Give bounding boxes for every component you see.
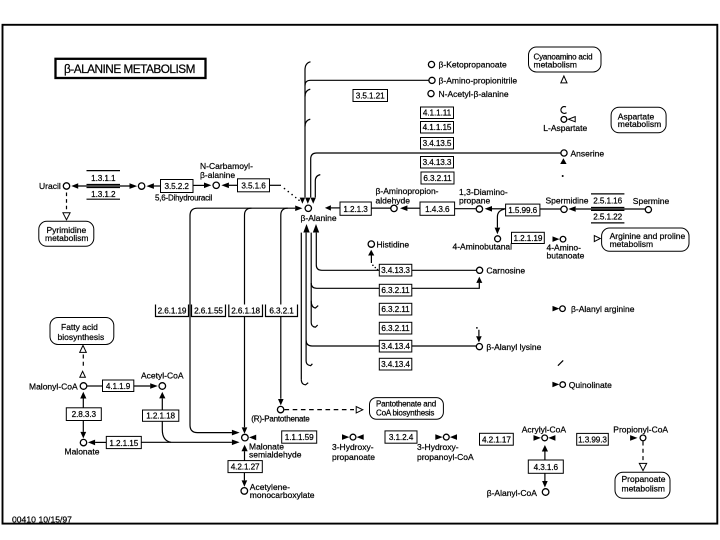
open triangle to arginine box [594, 236, 600, 242]
svg-text:2.5.1.16: 2.5.1.16 [593, 197, 622, 206]
wire to spermidine [540, 208, 561, 210]
svg-text:Anserine: Anserine [571, 149, 605, 159]
svg-text:6.3.2.11: 6.3.2.11 [381, 286, 410, 295]
wire to 3.5.1.6 box [229, 184, 238, 186]
svg-text:3.4.13.3: 3.4.13.3 [423, 158, 452, 167]
open left triangle at L-Aspartate [569, 117, 576, 122]
node N-Acetyl-beta-alanine [428, 91, 434, 97]
svg-text:2.6.1.18: 2.6.1.18 [231, 306, 260, 315]
arrowhead right into 3-hydroxypropanoyl-CoA [435, 434, 442, 440]
wire left line from beta-Alanine bending down to malonate semialdehyde [190, 208, 295, 432]
arrowhead left into 3-hydroxypropanoyl-CoA [450, 434, 457, 440]
svg-text:1.4.3.6: 1.4.3.6 [425, 205, 450, 214]
node 1,3-Diaminopropane [476, 206, 482, 212]
svg-text:metabolism: metabolism [45, 233, 88, 243]
svg-text:4.1.1.9: 4.1.1.9 [106, 382, 131, 391]
pathway box Cyanoamino acid metabolism [529, 47, 602, 72]
arrowhead down into beta-alanyl-lysine [476, 336, 482, 342]
wire to 1.5.99.6 [492, 208, 506, 210]
wire short vertical with curl (to 6.3.2.11) above beta-Alanine [315, 175, 320, 198]
svg-text:CoA biosynthesis: CoA biosynthesis [376, 409, 434, 418]
wire short into beta-alanyl-lysine [478, 330, 480, 336]
dotted diagonal into beta-alanine [284, 188, 286, 190]
open triangle under cyanoamino box [561, 76, 567, 83]
wire right reaction chain from beta-Alanine [331, 207, 340, 209]
arrowhead right into malonate semialdehyde upper [232, 430, 240, 436]
open arrowhead right to pantothenate box [356, 407, 363, 413]
arrowhead right into N-Carbamoyl-beta-alanine [204, 183, 211, 189]
wire malonyl to acetyl line [87, 385, 103, 387]
node Spermine [645, 207, 651, 213]
arrowhead up into carnosine from below [476, 277, 482, 283]
svg-text:3.5.1.21: 3.5.1.21 [356, 91, 385, 100]
arrowhead up into malonyl-CoA from below [80, 392, 86, 399]
node beta-Aminopropion-aldehyde [391, 205, 397, 211]
node Histidine [368, 241, 374, 247]
svg-text:Pantothenate and: Pantothenate and [376, 400, 436, 409]
arrowhead right into propionyl-CoA [630, 435, 637, 441]
node beta-Alanyl-CoA [542, 489, 549, 496]
enzyme box 2.6.1.19 [156, 305, 189, 317]
arrowhead right into malonate semialdehyde lower [232, 440, 240, 446]
node Quinolinate [560, 382, 566, 388]
arrowhead right into acetyl-CoA [150, 383, 158, 389]
svg-text:1.2.1.19: 1.2.1.19 [514, 234, 543, 243]
wire anserine line from vertical down to beta-Alanine [311, 153, 561, 197]
node R-Pantothenate [277, 406, 283, 412]
node beta-Ketopropanoate [428, 61, 434, 67]
node 5,6-Dihydrouracil [138, 183, 144, 189]
svg-text:00410: 00410 [12, 514, 36, 524]
svg-text:metabolism: metabolism [622, 484, 665, 494]
wire to spermine through box pair [576, 208, 646, 210]
small open arrowhead above malonyl-CoA [80, 371, 86, 377]
wire VC end flick [311, 323, 318, 328]
node Spermidine [561, 206, 567, 212]
svg-text:3-Hydroxy-: 3-Hydroxy- [332, 442, 374, 452]
enzyme box pair 2.5.1.16 [591, 193, 624, 195]
svg-text:Spermine: Spermine [633, 196, 670, 206]
arrowhead left into carbamoyl [221, 183, 229, 189]
enzyme box pair 2.5.1.22 [591, 209, 624, 211]
enzyme box 4.1.1.9 [103, 380, 134, 392]
wire from 3.5.1.6 toward beta-alanine [270, 184, 282, 186]
node 3-Hydroxypropanoate [350, 434, 356, 440]
wire branch down through 6.3.2.1 to pantothenate [281, 208, 288, 399]
svg-text:Acrylyl-CoA: Acrylyl-CoA [522, 425, 567, 435]
arrowhead down into acetylene-monocarboxylate [242, 480, 248, 486]
wire curl stub at y121 [305, 119, 310, 126]
open arrowhead up into fatty acid box [80, 345, 87, 352]
wire top curl of vertical [305, 62, 311, 70]
arrowhead right into 5,6-Dihydrouracil [130, 183, 138, 189]
dashed link Uracil down to Pyrimidine metabolism [66, 193, 68, 211]
enzyme box 1.2.1.3 [340, 202, 371, 215]
arrowhead left into Uracil [71, 183, 78, 189]
svg-text:monocarboxylate: monocarboxylate [250, 490, 315, 500]
node beta-Amino-propionitrile [429, 77, 435, 83]
wire branch down through 2.6.1.18 [245, 208, 252, 427]
wire VD vertical below beta-alanine into carnosine hydrolase line [315, 233, 317, 265]
enzyme box 3.1.2.4 [385, 431, 417, 443]
enzyme box 2.8.3.3 [66, 408, 101, 421]
dashed link propionyl-CoA down [642, 442, 644, 462]
enzyme box 3.4.13.3 (carnosine) [379, 264, 412, 276]
enzyme box 1.5.99.6 [506, 204, 540, 216]
svg-text:N-Acetyl-β-alanine: N-Acetyl-β-alanine [439, 89, 509, 99]
enzyme box 3.4.13.3 [421, 157, 454, 169]
node Malonate semialdehyde [242, 434, 249, 441]
svg-text:β-alanine: β-alanine [200, 170, 235, 180]
wire 2.8.3.3 down to malonate [82, 421, 84, 432]
enzyme box pair 1.3.1.1 [87, 170, 121, 172]
wire 4.2.1.27 down [243, 473, 245, 481]
svg-text:4.1.1.15: 4.1.1.15 [423, 123, 452, 132]
wire to 3.5.2.2 box [154, 185, 161, 187]
svg-text:1.2.1.3: 1.2.1.3 [343, 205, 368, 214]
svg-text:semialdehyde: semialdehyde [249, 449, 302, 459]
wire VC curl stub y308 [311, 301, 318, 308]
enzyme box 6.3.2.1 [266, 305, 298, 317]
arrowhead down into malonate [80, 432, 86, 439]
enzyme box 6.3.2.11 (carnosine synthase) [379, 284, 412, 296]
enzyme box 6.3.2.11 [421, 172, 454, 184]
enzyme box 3.5.1.21 [353, 90, 388, 102]
enzyme box 3.5.1.6 [238, 179, 270, 192]
svg-text:5,6-Dihydrouracil: 5,6-Dihydrouracil [155, 194, 212, 203]
svg-text:6.3.2.11: 6.3.2.11 [423, 174, 452, 183]
enzyme box 4.3.1.6 [528, 460, 563, 473]
pathway box Pantothenate and CoA biosynthesis [370, 398, 444, 420]
dot below anserine arrowhead [562, 175, 564, 177]
arrowhead left into acrylyl-CoA [548, 435, 555, 441]
enzyme box 1.2.1.18 [143, 410, 179, 421]
dot above beta-alanyl-lysine [476, 327, 478, 329]
wire branch to beta-Amino-propionitrile [305, 80, 429, 85]
enzyme box 3.4.13.4 (second) [379, 358, 412, 370]
wire to aminopropionaldehyde [371, 207, 390, 209]
arrowhead up into semialdehyde from below [242, 445, 248, 451]
svg-text:6.3.2.11: 6.3.2.11 [381, 305, 410, 314]
svg-text:Propanoate: Propanoate [622, 474, 666, 484]
svg-text:4.2.1.17: 4.2.1.17 [482, 435, 511, 444]
enzyme box 2.6.1.18 [229, 305, 263, 317]
node Acetyl-CoA [159, 383, 166, 390]
svg-text:3.5.2.2: 3.5.2.2 [165, 182, 190, 191]
arrowhead up below Anserine [560, 158, 566, 164]
arrowhead right into 4-aminobutanoate [553, 236, 560, 242]
svg-text:propanoate: propanoate [332, 452, 375, 462]
node Acetylene-monocarboxylate [241, 488, 248, 495]
wire VB vertical below beta-alanine with beta-alanyl-lysine branch [305, 233, 307, 361]
dashed link malonyl-CoA up [82, 355, 84, 369]
svg-text:2.5.1.22: 2.5.1.22 [593, 213, 622, 222]
wire 4.3.1.6 down [544, 473, 546, 481]
svg-text:metabolism: metabolism [610, 239, 653, 249]
wire 1.2.1.18 curl merging to semialdehyde line [162, 421, 171, 442]
arrowheads down into beta-Alanine [300, 198, 305, 204]
enzyme box 6.3.2.11 (third) [379, 322, 412, 334]
pathway box Arginine and proline metabolism [602, 228, 689, 251]
wire acrylyl down to 4.3.1.6 [544, 452, 546, 461]
svg-text:3.1.2.4: 3.1.2.4 [389, 433, 414, 442]
svg-text:β-Amino-propionitrile: β-Amino-propionitrile [439, 76, 518, 86]
wire vertical from beta-Alanine up to top compounds [304, 70, 306, 197]
enzyme box 1.4.3.6 [420, 202, 455, 215]
title box [56, 59, 206, 78]
node Malonate [80, 439, 86, 445]
svg-text:propanoyl-CoA: propanoyl-CoA [417, 452, 474, 462]
wire VC vertical below beta-alanine with carnosine synthase branch [310, 233, 312, 323]
open arrowhead down to propanoate box [639, 463, 646, 470]
svg-text:6.3.2.1: 6.3.2.1 [269, 306, 294, 315]
svg-text:4.2.1.27: 4.2.1.27 [231, 463, 260, 472]
dashed link pantothenate to biosynthesis box [285, 409, 355, 411]
svg-text:1.3.1.1: 1.3.1.1 [91, 174, 116, 183]
wire acetyl-CoA down to 1.2.1.18 [161, 398, 163, 410]
wire malonate to 1.2.1.15 [95, 441, 106, 443]
enzyme box 6.3.2.11 (second) [379, 303, 412, 315]
arrowhead up into acrylyl-CoA from below [542, 445, 548, 452]
node beta-Alanyl lysine [476, 344, 482, 350]
svg-text:3.4.13.4: 3.4.13.4 [381, 360, 410, 369]
svg-text:Histidine: Histidine [377, 239, 410, 249]
svg-text:Fatty acid: Fatty acid [61, 322, 98, 332]
arrowhead right into beta-Alanine from left [295, 206, 302, 212]
arrowhead right into beta-alanyl-arginine [553, 306, 560, 312]
svg-text:metabolism: metabolism [534, 59, 577, 69]
svg-text:3.4.13.4: 3.4.13.4 [381, 342, 410, 351]
svg-text:Malonate: Malonate [65, 447, 100, 457]
svg-text:3-Hydroxy-: 3-Hydroxy- [417, 442, 459, 452]
enzyme box 4.1.1.15 [421, 122, 454, 134]
pathway box Fatty acid biosynthesis [50, 318, 114, 345]
svg-text:2.6.1.19: 2.6.1.19 [158, 306, 187, 315]
arrowhead left into 3-hydroxypropanoate [357, 434, 364, 440]
enzyme box 1.2.1.15 [106, 436, 141, 448]
arrowhead left into beta-Alanine from right [325, 205, 331, 210]
wire to acetyl-CoA [134, 385, 150, 387]
dotted diagonal to carnosine line [372, 265, 374, 267]
arrowhead left into malonate [88, 440, 95, 446]
svg-text:β-Alanyl arginine: β-Alanyl arginine [571, 304, 635, 314]
arrowhead down into beta-alanyl-CoA [542, 481, 548, 488]
svg-text:β-Alanyl lysine: β-Alanyl lysine [486, 342, 541, 352]
svg-text:Uracil: Uracil [39, 181, 61, 191]
open arrowhead down to pyrimidine box [63, 213, 70, 220]
svg-text:1.5.99.6: 1.5.99.6 [508, 206, 537, 215]
node beta-Alanine [305, 205, 311, 211]
wire below histidine [370, 256, 372, 264]
arrowhead up into histidine [368, 250, 374, 256]
node N-Carbamoyl-beta-alanine [213, 182, 219, 188]
wire malonyl down to 2.8.3.3 [82, 399, 84, 408]
node 4-Aminobutanoate [560, 236, 566, 242]
svg-text:β-ALANINE METABOLISM: β-ALANINE METABOLISM [64, 62, 195, 76]
wire to diaminopropane [455, 208, 476, 210]
pathway box Pyrimidine metabolism [39, 221, 94, 246]
svg-text:3.5.1.6: 3.5.1.6 [241, 181, 266, 190]
svg-text:butanoate: butanoate [547, 251, 585, 261]
wire to 1.4.3.6 [407, 207, 420, 209]
enzyme box pair 1.3.1.2 [87, 187, 121, 189]
svg-text:4-Aminobutanal: 4-Aminobutanal [453, 242, 513, 252]
svg-text:(R)-Pantothenate: (R)-Pantothenate [251, 415, 310, 424]
svg-text:1.2.1.15: 1.2.1.15 [109, 439, 138, 448]
svg-text:metabolism: metabolism [618, 119, 661, 129]
wire curl stub at y91 [305, 89, 310, 96]
arrowheads up into beta-Alanine from below [303, 224, 309, 233]
node Malonyl-CoA [80, 383, 87, 390]
enzyme box 3.5.2.2 [161, 180, 194, 193]
svg-text:Carnosine: Carnosine [486, 266, 525, 276]
enzyme box 2.6.1.55 [192, 305, 226, 317]
node 3-Hydroxypropanoyl-CoA [443, 434, 449, 440]
node Anserine [561, 150, 567, 156]
arrowhead left into diaminopropane [485, 206, 492, 212]
enzyme box 4.2.1.27 [228, 461, 262, 473]
node 4-Aminobutanal [495, 236, 501, 242]
node Carnosine [477, 267, 483, 273]
enzyme box 4.1.1.11 [421, 107, 454, 119]
wire from 3.5.2.2 to carbamoyl [193, 184, 204, 186]
svg-text:1.2.1.18: 1.2.1.18 [146, 412, 175, 421]
enzyme box 3.4.13.4 [379, 340, 412, 352]
svg-text:Quinolinate: Quinolinate [569, 380, 612, 390]
svg-text:biosynthesis: biosynthesis [58, 332, 105, 342]
svg-text:1.1.1.59: 1.1.1.59 [285, 433, 314, 442]
svg-text:6.3.2.11: 6.3.2.11 [381, 324, 410, 333]
wire semialdehyde down to 4.2.1.27 [244, 451, 246, 460]
small diagonal dash [558, 360, 563, 365]
curl above L-Aspartate [561, 107, 567, 114]
node L-Aspartate [561, 117, 567, 123]
svg-text:propane: propane [459, 195, 490, 205]
svg-text:4.1.1.11: 4.1.1.11 [423, 109, 452, 118]
pathway box Propanoate metabolism [615, 472, 670, 498]
svg-text:2.6.1.55: 2.6.1.55 [194, 306, 223, 315]
svg-text:2.8.3.3: 2.8.3.3 [72, 410, 97, 419]
wire VA vertical below beta-alanine, ends with quinolinate stub [300, 233, 302, 380]
svg-text:Propionyl-CoA: Propionyl-CoA [613, 425, 668, 435]
enzyme box 1.2.1.19 [512, 232, 545, 243]
svg-text:L-Aspartate: L-Aspartate [543, 123, 587, 133]
arrowhead up into acetyl-CoA from below [159, 392, 165, 399]
arrowhead down into malonate semialdehyde [242, 427, 248, 433]
enzyme box 1.1.1.59 [282, 431, 317, 443]
wire 1.2.1.15 line to malonate semialdehyde [141, 441, 232, 443]
arrowhead left into spermidine [568, 206, 575, 212]
svg-text:aldehyde: aldehyde [376, 195, 411, 205]
arrowhead right into acrylyl-CoA [534, 435, 541, 441]
enzyme box 4.2.1.17 [480, 433, 514, 445]
arrowhead left into aldehyde [400, 205, 407, 211]
wire branch down to 4-aminobutanal [497, 209, 504, 227]
svg-text:β-Alanine: β-Alanine [301, 213, 337, 223]
enzyme box 1.3.99.3 [577, 433, 609, 445]
svg-text:3.4.13.3: 3.4.13.3 [381, 266, 410, 275]
pathway box Aspartate metabolism [611, 107, 666, 133]
svg-text:10/15/97: 10/15/97 [39, 514, 73, 524]
arrowhead down into pantothenate [278, 399, 284, 405]
enzyme box 3.4.13.5 [421, 138, 454, 150]
svg-text:3.4.13.5: 3.4.13.5 [423, 139, 452, 148]
svg-text:1.3.99.3: 1.3.99.3 [578, 435, 607, 444]
svg-text:Malonyl-CoA: Malonyl-CoA [29, 381, 78, 391]
svg-text:Acetyl-CoA: Acetyl-CoA [141, 370, 184, 380]
arrowhead left into semialdehyde from right [249, 435, 256, 441]
wire uracil reaction line [78, 185, 130, 187]
svg-text:Spermidine: Spermidine [546, 196, 589, 206]
arrowhead down into 4-aminobutanal [495, 228, 501, 235]
svg-text:4.3.1.6: 4.3.1.6 [534, 463, 559, 472]
svg-text:β-Ketopropanoate: β-Ketopropanoate [439, 60, 507, 70]
node beta-Alanyl arginine [560, 306, 566, 312]
arrowhead right into quinolinate [552, 382, 559, 388]
svg-text:β-Alanyl-CoA: β-Alanyl-CoA [487, 488, 538, 498]
arrowhead left into dihydrouracil [146, 183, 154, 189]
arrowhead right into 3-hydroxypropanoate [342, 434, 349, 440]
svg-text:1.3.1.2: 1.3.1.2 [91, 190, 116, 199]
